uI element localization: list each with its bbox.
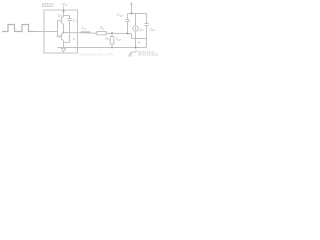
svg-text:Cgd: Cgd — [117, 13, 123, 18]
svg-text:Vcc: Vcc — [62, 1, 68, 7]
svg-text:b: b — [73, 37, 75, 41]
svg-text:C1: C1 — [73, 19, 78, 24]
svg-text:htps:/dzsc.com.nefrn: htps:/dzsc.com.nefrn — [79, 51, 115, 56]
svg-text:Q1: Q1 — [58, 13, 63, 19]
svg-text:S: S — [138, 41, 141, 45]
svg-text:Cgs: Cgs — [116, 37, 122, 42]
svg-text:Rin: Rin — [105, 37, 110, 42]
svg-text:gm: gm — [140, 28, 144, 33]
svg-text:Lg: Lg — [82, 25, 86, 31]
svg-text:Cds: Cds — [150, 28, 156, 33]
svg-text:Rg: Rg — [100, 25, 105, 31]
